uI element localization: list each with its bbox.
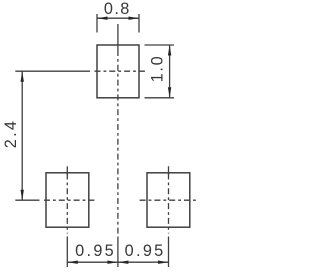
arrowhead 0.95 right-left [118, 261, 128, 264]
arrowhead 1.0 bottom [168, 87, 171, 98]
svg-text:1.0: 1.0 [149, 55, 167, 83]
centerline horizontal top pad (y=71) [15, 70, 146, 72]
svg-text:0.95: 0.95 [75, 242, 116, 260]
arrowhead 0.95 right-right [158, 261, 169, 264]
dimension 1.0 line [169, 45, 171, 98]
centerline horizontal bottom pads (y=200) [15, 199, 196, 201]
centerline vertical middle (x=118) [117, 24, 119, 267]
arrowhead 2.4 top [21, 71, 24, 82]
arrowhead 0.8 left [97, 17, 108, 20]
dimension 0.95 line [67, 261, 168, 263]
centerline vertical right pad (x=168.5) [168, 166, 170, 267]
dimension 0.8 line [97, 17, 139, 19]
svg-text:0.95: 0.95 [125, 242, 166, 260]
dimension 0.8 extension lines [96, 14, 98, 33]
centerline vertical left pad (x=67.3) [66, 166, 68, 267]
arrowhead 2.4 bottom [21, 190, 24, 201]
pad P1 (top) [97, 45, 139, 98]
arrowhead 1.0 top [168, 45, 171, 56]
pad P3 (bottom-right) [147, 173, 190, 227]
arrowhead 0.8 right [129, 17, 140, 20]
svg-text:2.4: 2.4 [2, 119, 20, 148]
dimension 1.0 extension lines [145, 44, 175, 46]
arrowhead 0.95 left-right [107, 261, 118, 264]
arrowhead 0.95 left-left [67, 261, 78, 264]
svg-text:0.8: 0.8 [104, 0, 131, 18]
dimension 2.4 line [21, 71, 23, 200]
pad P2 (bottom-left) [46, 173, 89, 227]
